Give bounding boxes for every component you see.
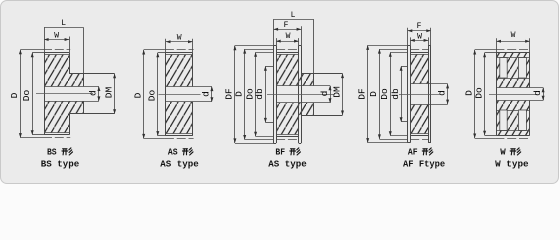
BF dimension D	[243, 49, 273, 140]
BS dimension W	[44, 37, 70, 53]
svg-text:db: db	[254, 88, 265, 100]
W pulley: body outline	[496, 53, 529, 136]
W dimension Do	[483, 53, 496, 136]
BF pulley: hub outline	[301, 74, 342, 116]
AF dimension Do	[389, 52, 408, 136]
AS pulley: pitch lines (dashed)	[165, 50, 194, 139]
svg-text:D: D	[9, 92, 20, 98]
BF pulley: hatched toothed body section	[276, 54, 299, 134]
BS dimension Do	[31, 53, 44, 135]
svg-text:AF: AF	[408, 146, 418, 157]
svg-text:DM: DM	[103, 87, 114, 99]
AF pulley: db step lines	[401, 67, 408, 122]
AF pulley: right flange plate	[428, 45, 431, 142]
BS dimension L	[44, 27, 84, 73]
svg-text:W: W	[54, 32, 59, 41]
AF dimension F	[408, 28, 431, 46]
AF dimension W	[410, 37, 428, 45]
svg-text:Do: Do	[147, 90, 158, 102]
svg-text:F: F	[284, 21, 289, 30]
svg-text:D: D	[368, 91, 379, 97]
BF pulley: db step lines	[265, 67, 273, 123]
BF pulley: right flange plate	[299, 46, 302, 144]
BF pulley: left flange plate	[274, 46, 277, 144]
svg-text:W: W	[286, 32, 291, 41]
svg-text:AS: AS	[168, 146, 178, 157]
svg-text:AS type: AS type	[268, 158, 307, 169]
svg-text:D: D	[234, 91, 245, 97]
AF centerline	[399, 94, 440, 96]
BS pulley: hatched toothed body section (top half)	[44, 55, 69, 133]
AS centerline	[159, 94, 201, 96]
W centerline	[489, 94, 537, 96]
BS dimension D	[19, 50, 43, 138]
BS pulley: body outline	[44, 53, 70, 135]
AF dimension d	[446, 84, 449, 104]
BS pulley: bore lines	[44, 87, 99, 102]
svg-text:BS: BS	[47, 146, 57, 157]
BF dimension F	[274, 26, 302, 45]
svg-text:d: d	[319, 91, 330, 97]
BF dimension d	[329, 86, 332, 103]
W pulley: cavity rectangles	[500, 58, 527, 131]
BS pulley: hatched hub section	[69, 74, 83, 114]
svg-text:W: W	[500, 146, 506, 157]
svg-text:AF Ftype: AF Ftype	[403, 158, 445, 169]
AS pulley: body outline	[166, 53, 193, 136]
svg-text:L: L	[61, 19, 66, 28]
W pulley: hatched rim bands	[496, 53, 529, 136]
svg-text:d: d	[532, 90, 543, 96]
W pulley: hatched side walls	[496, 58, 529, 131]
svg-text:DF: DF	[357, 88, 368, 100]
AS pulley: bore lines	[166, 87, 212, 102]
BF pulley: toothed face outline	[276, 53, 299, 137]
BF dimension DF	[233, 46, 273, 144]
BS dimension d	[97, 86, 100, 101]
W dimension W	[496, 38, 529, 53]
W pulley: hatched hub bands	[496, 78, 529, 110]
svg-text:BF: BF	[275, 146, 285, 157]
BF dimension db	[264, 66, 267, 122]
AF dimension D	[378, 49, 408, 140]
BF caption row 1	[275, 146, 300, 157]
svg-text:Do: Do	[21, 90, 32, 102]
BS caption row 1	[47, 146, 73, 157]
BS pulley: hub outline	[69, 74, 114, 114]
svg-text:Do: Do	[473, 87, 484, 99]
AF pulley: hatched toothed body section	[410, 54, 428, 134]
svg-text:db: db	[390, 88, 401, 100]
AS pulley: hatched toothed body section	[166, 55, 193, 134]
AS dimension Do	[156, 53, 166, 136]
W caption row 1	[500, 146, 520, 157]
W pulley: bore lines	[496, 88, 543, 101]
BF dimension Do	[254, 52, 273, 136]
AF pulley: pitch lines (dashed)	[410, 50, 428, 140]
BF dimension DM	[341, 74, 344, 116]
W dimension D	[473, 50, 495, 139]
svg-text:d: d	[88, 90, 99, 96]
svg-text:D: D	[133, 92, 144, 98]
BF dimension W	[276, 38, 299, 46]
svg-text:AS type: AS type	[160, 158, 199, 169]
svg-text:Do: Do	[379, 88, 390, 100]
W pulley: hatched web columns	[507, 58, 518, 131]
svg-text:F: F	[417, 22, 422, 31]
AF dimension DF	[366, 45, 408, 142]
AF pulley: bore lines	[410, 84, 447, 105]
svg-text:L: L	[291, 11, 296, 20]
svg-text:W: W	[417, 33, 422, 42]
AF caption row 1	[408, 146, 433, 157]
BS dimension DM	[113, 74, 116, 114]
AS dimension W	[166, 39, 193, 53]
AF pulley: left flange plate	[408, 45, 411, 142]
AS dimension d	[210, 87, 213, 102]
BF pulley: pitch lines (dashed)	[276, 50, 299, 140]
BF dimension L	[274, 19, 314, 73]
BF centerline	[267, 94, 334, 96]
AF pulley: toothed face outline	[410, 53, 428, 136]
W dimension d	[542, 88, 545, 101]
AS caption row 1	[168, 146, 193, 157]
svg-text:W: W	[177, 34, 182, 43]
svg-text:BS type: BS type	[41, 158, 80, 169]
BF pulley: hatched hub section	[299, 74, 314, 116]
svg-text:DM: DM	[331, 86, 342, 98]
svg-text:d: d	[201, 91, 212, 97]
svg-text:W: W	[511, 31, 516, 40]
BS pulley: pitch lines (dashed)	[43, 50, 70, 138]
card background	[0, 0, 559, 184]
AS dimension D	[142, 50, 165, 139]
BS centerline	[36, 93, 93, 95]
W pulley: pitch lines (dashed)	[495, 50, 530, 139]
svg-text:d: d	[436, 90, 447, 96]
BF pulley: bore lines	[276, 86, 330, 103]
svg-text:W type: W type	[495, 158, 529, 169]
AF dimension db	[400, 66, 403, 122]
